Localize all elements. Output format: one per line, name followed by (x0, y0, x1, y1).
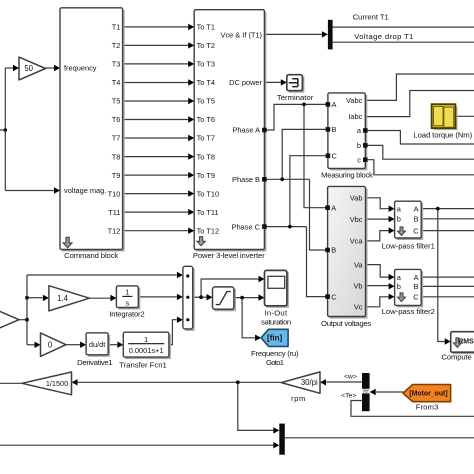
svg-text:Phase A: Phase A (232, 126, 260, 135)
svg-text:[fin]: [fin] (267, 334, 282, 343)
svg-text:B: B (414, 215, 419, 224)
svg-text:From3: From3 (416, 403, 439, 412)
svg-text:1/1500: 1/1500 (46, 379, 68, 388)
svg-text:Output voltages: Output voltages (321, 319, 371, 328)
svg-text:Vb: Vb (353, 281, 362, 290)
svg-text:To T6: To T6 (197, 115, 215, 124)
svg-text:Phase C: Phase C (232, 222, 261, 231)
svg-text:1.4: 1.4 (57, 294, 69, 303)
svg-text:Transfer Fcn1: Transfer Fcn1 (119, 360, 167, 369)
svg-text:To T1: To T1 (197, 23, 215, 32)
svg-text:1: 1 (125, 288, 129, 297)
svg-text:c: c (357, 155, 361, 164)
svg-text:Current T1: Current T1 (353, 13, 389, 22)
svg-text:To T2: To T2 (197, 41, 215, 50)
svg-text:To T9: To T9 (197, 171, 215, 180)
svg-text:T12: T12 (108, 226, 121, 235)
svg-text:Vab: Vab (350, 194, 363, 203)
svg-text:Power 3-level inverter: Power 3-level inverter (193, 251, 265, 260)
svg-text:Derivative1: Derivative1 (77, 358, 113, 367)
svg-text:C: C (331, 292, 337, 301)
svg-text:frequency: frequency (64, 63, 97, 72)
svg-text:50: 50 (24, 64, 33, 73)
svg-text:Low-pass filter1: Low-pass filter1 (382, 242, 435, 251)
svg-text:<Te>: <Te> (341, 392, 356, 399)
svg-text:0: 0 (48, 340, 53, 349)
svg-text:A: A (331, 203, 336, 212)
svg-text:To T7: To T7 (197, 134, 215, 143)
svg-text:A: A (414, 204, 419, 213)
svg-text:rpm: rpm (291, 394, 306, 403)
svg-text:C: C (413, 226, 419, 235)
svg-text:Terminator: Terminator (277, 93, 314, 102)
svg-text:Load torque (Nm): Load torque (Nm) (413, 131, 472, 140)
svg-text:DC power: DC power (229, 78, 262, 87)
svg-text:s: s (125, 299, 129, 308)
svg-text:Goto1: Goto1 (266, 358, 284, 367)
svg-text:T10: T10 (108, 189, 121, 198)
svg-text:T3: T3 (112, 60, 121, 69)
svg-text:Command block: Command block (64, 251, 118, 260)
svg-text:B: B (332, 125, 337, 134)
svg-text:Frequency (ru): Frequency (ru) (251, 349, 299, 358)
svg-text:du/dt: du/dt (89, 340, 105, 349)
svg-text:<w>: <w> (344, 373, 357, 380)
svg-text:voltage mag.: voltage mag. (64, 186, 106, 195)
svg-text:RMS: RMS (458, 338, 474, 345)
svg-text:A: A (332, 100, 337, 109)
svg-text:To T8: To T8 (197, 152, 215, 161)
svg-text:C: C (332, 152, 338, 161)
svg-text:A: A (414, 273, 419, 282)
svg-text:T2: T2 (112, 41, 121, 50)
svg-text:In-Out: In-Out (265, 308, 288, 317)
svg-text:b: b (357, 141, 361, 150)
svg-text:T4: T4 (112, 78, 121, 87)
svg-text:Integrator2: Integrator2 (109, 310, 144, 319)
svg-text:Compute: Compute (441, 352, 471, 361)
svg-text:Vca: Vca (350, 237, 364, 246)
svg-text:0.0001s+1: 0.0001s+1 (129, 346, 164, 355)
svg-text:Low-pass filter2: Low-pass filter2 (382, 307, 435, 316)
svg-text:30/pi: 30/pi (301, 378, 318, 387)
svg-text:Vbc: Vbc (350, 215, 363, 224)
svg-text:To T12: To T12 (197, 226, 219, 235)
svg-text:C: C (413, 293, 419, 302)
svg-text:b: b (397, 215, 401, 224)
svg-text:To T10: To T10 (197, 189, 219, 198)
svg-text:T9: T9 (112, 171, 121, 180)
svg-text:Va: Va (354, 260, 363, 269)
svg-text:B: B (331, 246, 336, 255)
svg-text:Voltage drop T1: Voltage drop T1 (354, 32, 413, 41)
svg-text:To T4: To T4 (197, 78, 215, 87)
svg-text:1: 1 (144, 335, 148, 344)
svg-text:Iabc: Iabc (348, 112, 362, 121)
svg-text:B: B (414, 282, 419, 291)
svg-text:Measuring block: Measuring block (321, 170, 373, 179)
svg-text:[Motor_out]: [Motor_out] (409, 391, 447, 398)
svg-text:Vabc: Vabc (346, 96, 363, 105)
svg-text:Vce & If (T1): Vce & If (T1) (221, 30, 262, 39)
svg-text:T8: T8 (112, 152, 121, 161)
svg-text:T5: T5 (112, 97, 121, 106)
svg-text:b: b (397, 282, 401, 291)
svg-text:saturation: saturation (261, 318, 291, 327)
svg-text:T11: T11 (108, 208, 120, 217)
svg-text:Phase B: Phase B (232, 175, 260, 184)
svg-text:To T5: To T5 (197, 97, 215, 106)
svg-text:T1: T1 (112, 23, 121, 32)
svg-text:Vc: Vc (354, 303, 363, 312)
svg-text:To T3: To T3 (197, 60, 215, 69)
svg-text:T6: T6 (112, 115, 121, 124)
svg-text:T7: T7 (112, 134, 121, 143)
svg-text:To T11: To T11 (197, 208, 219, 217)
